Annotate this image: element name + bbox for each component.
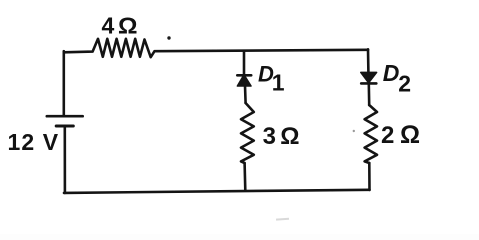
svg-text:4: 4 [102,13,115,39]
svg-text:1: 1 [272,69,285,95]
svg-text:D: D [383,60,400,86]
svg-text:Ω: Ω [118,13,138,39]
svg-text:12 V: 12 V [8,129,60,155]
svg-text:2: 2 [398,71,411,97]
svg-text:Ω: Ω [280,123,299,150]
svg-text:3: 3 [263,123,276,150]
svg-text:2: 2 [381,122,394,149]
svg-text:Ω: Ω [400,121,420,149]
